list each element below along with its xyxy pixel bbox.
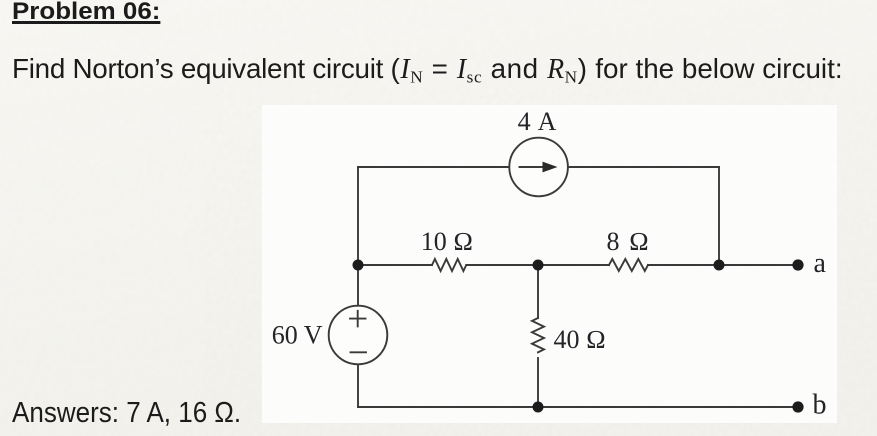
node dot right junction	[714, 260, 725, 271]
resistor R 10ohm zigzag	[432, 259, 466, 271]
node dot center junction	[533, 260, 544, 271]
voltage source plus sign	[350, 311, 366, 327]
wire left vertical upper	[357, 167, 359, 306]
resistor R 8ohm zigzag	[609, 259, 648, 271]
wire bottom	[358, 406, 798, 408]
node dot bottom junction	[533, 402, 544, 413]
wire 40ohm lower lead	[537, 358, 539, 407]
question line	[12, 55, 843, 84]
current source arrowhead	[543, 162, 558, 173]
wire top-right	[568, 166, 719, 168]
terminal b dot	[792, 401, 803, 412]
wire left vertical lower	[357, 364, 359, 407]
node dot left junction	[353, 260, 364, 271]
answers line	[12, 399, 241, 428]
wire right vertical	[718, 167, 720, 265]
terminal a dot	[792, 259, 803, 270]
svg-text:60 V: 60 V	[272, 321, 323, 350]
wire 40ohm upper lead	[537, 265, 539, 318]
wire middle horizontal	[358, 264, 432, 266]
wire top-left	[358, 166, 510, 168]
voltage source minus sign	[351, 351, 367, 353]
svg-text:b: b	[813, 390, 827, 421]
white circuit panel	[262, 105, 837, 423]
current source arrow	[520, 166, 546, 168]
title: Problem 06:	[12, 0, 160, 25]
voltage source V1 circle	[329, 306, 388, 365]
svg-text:8 Ω: 8 Ω	[607, 227, 651, 256]
svg-text:40 Ω: 40 Ω	[554, 325, 606, 354]
wire middle between resistors	[466, 264, 609, 266]
svg-text:a: a	[814, 248, 827, 279]
wire middle to terminal a	[648, 264, 798, 266]
resistor R 40ohm zigzag	[532, 318, 544, 352]
svg-text:4 A: 4 A	[518, 107, 558, 136]
current source I1 circle	[509, 138, 568, 197]
svg-text:10 Ω: 10 Ω	[421, 227, 473, 256]
